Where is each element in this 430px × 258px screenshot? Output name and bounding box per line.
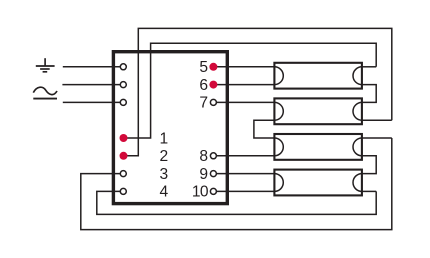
wire lamp2 right bottom from bus	[362, 119, 392, 121]
pin 3 terminal	[120, 171, 126, 177]
wire pin6 to lamp1	[213, 84, 274, 86]
svg-text:5: 5	[199, 59, 208, 76]
lamp LA2	[274, 98, 362, 124]
pin 2 (red)	[120, 152, 128, 160]
svg-text:6: 6	[199, 77, 208, 94]
wire lamp1 right top from bus	[362, 66, 376, 68]
lamp LA4 right filament	[353, 174, 362, 192]
wire pin5 to lamp1	[213, 66, 274, 68]
pin 1 (red)	[120, 134, 128, 142]
wire line input L1	[63, 66, 124, 68]
svg-text:4: 4	[159, 184, 168, 201]
wire line input L3	[63, 101, 124, 103]
wire pin3 to bottom bus	[81, 138, 392, 230]
pin 6 (red)	[209, 81, 217, 89]
lamp LA1	[274, 63, 362, 89]
wire lamp2 lower to lamp3 upper (left link)	[254, 120, 275, 138]
lamp LA3 right filament	[353, 138, 362, 156]
wire lamp3 right top to bus	[362, 137, 392, 139]
wire lamp1 lower to lamp2 upper (right link)	[362, 85, 376, 103]
wire pin1 to top bus	[124, 43, 377, 138]
lamp LA2 left filament	[274, 102, 283, 120]
svg-text:8: 8	[199, 148, 208, 165]
wire pin7 to lamp2	[213, 101, 274, 103]
terminal input L2	[120, 82, 126, 88]
ballast box U1	[113, 52, 227, 204]
svg-text:9: 9	[199, 166, 208, 183]
lamp LA4 left filament	[274, 174, 283, 192]
wire line input L2	[62, 84, 123, 86]
AC source symbol	[33, 87, 57, 98]
wire pin10 to lamp4	[213, 190, 274, 192]
svg-text:1: 1	[159, 130, 168, 147]
svg-text:3: 3	[159, 166, 168, 183]
wire pin8 to lamp3	[213, 155, 274, 157]
terminal input L3	[120, 99, 126, 105]
lamp LA3	[274, 134, 362, 160]
pin 5 (red)	[209, 63, 217, 71]
lamp LA4	[274, 170, 362, 196]
pin 8 terminal	[210, 153, 216, 159]
terminal input L1	[120, 64, 126, 70]
pin 4 terminal	[120, 188, 126, 194]
pin 9 terminal	[210, 171, 216, 177]
wire pin4 to bottom bus	[97, 191, 376, 214]
lamp LA2 right filament	[353, 102, 362, 120]
pin 10 terminal	[210, 188, 216, 194]
svg-text:10: 10	[192, 184, 209, 201]
wire lamp4 right bottom to bus	[362, 190, 376, 192]
lamp LA3 left filament	[274, 138, 283, 156]
pin 7 terminal	[210, 99, 216, 105]
lamp LA1 right filament	[353, 67, 362, 85]
svg-text:2: 2	[159, 148, 168, 165]
wire pin9 to lamp4	[213, 173, 274, 175]
ground	[36, 58, 55, 72]
lamp LA1 left filament	[274, 67, 283, 85]
wire pin2 to top bus	[124, 28, 392, 155]
svg-text:7: 7	[199, 95, 208, 112]
wire lamp3 lower to lamp4 upper (right link)	[362, 156, 376, 174]
